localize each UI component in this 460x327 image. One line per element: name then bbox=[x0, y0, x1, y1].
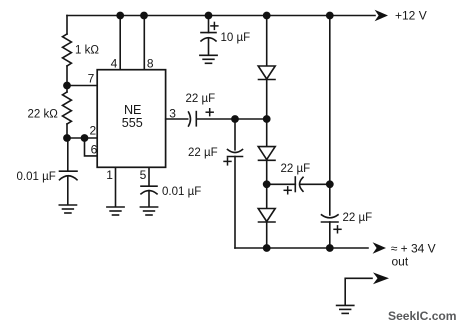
svg-text:out: out bbox=[392, 255, 409, 269]
wire bottom rail bbox=[235, 247, 368, 249]
plus C7 bbox=[333, 228, 341, 230]
diode D3 bbox=[258, 209, 275, 222]
node C3 rail bbox=[205, 12, 213, 20]
svg-text:3: 3 bbox=[169, 107, 176, 121]
svg-text:555: 555 bbox=[122, 116, 143, 130]
wire pin 1 bbox=[115, 167, 117, 206]
node C7 row bbox=[326, 180, 334, 188]
svg-text:2: 2 bbox=[90, 124, 97, 138]
svg-text:0.01 µF: 0.01 µF bbox=[162, 186, 201, 198]
plus C4 bbox=[206, 111, 214, 113]
svg-text:22 µF: 22 µF bbox=[343, 212, 373, 224]
node B bbox=[63, 134, 71, 142]
node D1-D2 bbox=[263, 115, 271, 123]
wire row to C6 bbox=[267, 183, 296, 185]
svg-text:≈ + 34 V: ≈ + 34 V bbox=[391, 241, 436, 255]
wire right vertical bbox=[329, 16, 331, 216]
svg-text:10 µF: 10 µF bbox=[221, 32, 251, 44]
capacitor C4 22 uF bbox=[189, 112, 191, 126]
wire D1 to node bbox=[266, 80, 268, 147]
svg-text:1: 1 bbox=[106, 168, 113, 182]
capacitor C3 10 uF bbox=[208, 16, 210, 33]
arrow out2 bbox=[373, 272, 389, 284]
wire C5 branch bbox=[234, 119, 236, 150]
node pin4 rail bbox=[116, 12, 124, 20]
wire pin 8 bbox=[143, 16, 145, 70]
plus signs bbox=[206, 22, 342, 234]
svg-text:+12 V: +12 V bbox=[395, 8, 427, 22]
node right rail bbox=[326, 12, 334, 20]
arrow +12V bbox=[375, 10, 388, 22]
diode D1 bbox=[266, 16, 268, 67]
capacitor C2 0.01 uF bbox=[141, 185, 157, 187]
wire pin 7 bbox=[67, 85, 97, 87]
node pin8 rail bbox=[140, 12, 148, 20]
diode D2 bbox=[258, 147, 275, 160]
plus C3 bbox=[210, 25, 218, 27]
svg-text:22 µF: 22 µF bbox=[188, 147, 218, 159]
svg-text:22 µF: 22 µF bbox=[186, 93, 216, 105]
svg-text:6: 6 bbox=[91, 143, 98, 157]
wire D2 to node bbox=[266, 160, 268, 208]
node D2-D3 bbox=[263, 180, 271, 188]
ground pin 1 bbox=[107, 206, 124, 208]
wire output ground stub bbox=[345, 278, 372, 305]
wire left branch top (rail to 1k) bbox=[66, 16, 68, 35]
wire pin 6 bbox=[85, 138, 98, 156]
node C5 bbox=[231, 115, 239, 123]
svg-text:7: 7 bbox=[88, 72, 95, 86]
node pin2/6 bbox=[81, 134, 89, 142]
resistor R2 22 kOhm bbox=[66, 86, 68, 93]
ground pin 5 bbox=[140, 206, 157, 208]
wire D3 to bottom rail bbox=[266, 222, 268, 248]
svg-text:1 kΩ: 1 kΩ bbox=[75, 45, 99, 57]
plus C6 bbox=[284, 189, 292, 191]
svg-text:22 kΩ: 22 kΩ bbox=[28, 109, 59, 121]
wire pin 4 bbox=[119, 16, 121, 70]
op IC U1 NE555 box bbox=[97, 70, 165, 168]
wire pin 3 bbox=[166, 118, 188, 120]
svg-text:NE: NE bbox=[124, 103, 142, 117]
svg-text:22 µF: 22 µF bbox=[281, 163, 311, 175]
svg-text:4: 4 bbox=[111, 56, 118, 70]
capacitor C7 22 uF bbox=[322, 215, 339, 218]
capacitor C1 0.01 uF bbox=[60, 170, 78, 172]
ground C1 bbox=[59, 204, 76, 206]
svg-text:5: 5 bbox=[140, 168, 147, 182]
node D3 bottom bbox=[263, 244, 271, 252]
resistor R1 1 kOhm bbox=[63, 34, 72, 66]
node A bbox=[63, 82, 71, 90]
arrow +34V out bbox=[373, 242, 386, 254]
capacitor C5 22 uF bbox=[228, 150, 243, 153]
ground output bbox=[337, 304, 354, 306]
svg-text:0.01 µF: 0.01 µF bbox=[17, 171, 56, 183]
capacitor C6 22 uF bbox=[294, 177, 296, 192]
wire pin 2 bbox=[67, 137, 97, 139]
ground C3 bbox=[200, 54, 217, 56]
plus C5 bbox=[223, 160, 231, 162]
svg-text:8: 8 bbox=[147, 56, 154, 70]
wire top +12V rail bbox=[67, 15, 375, 17]
node D1 rail bbox=[263, 12, 271, 20]
wire node B to C1 bbox=[67, 138, 69, 171]
wire pin 5 bbox=[148, 167, 150, 186]
svg-text:SeekIC.com: SeekIC.com bbox=[388, 309, 457, 323]
node C7 bottom bbox=[326, 244, 334, 252]
wire 1k to node A bbox=[66, 66, 68, 86]
